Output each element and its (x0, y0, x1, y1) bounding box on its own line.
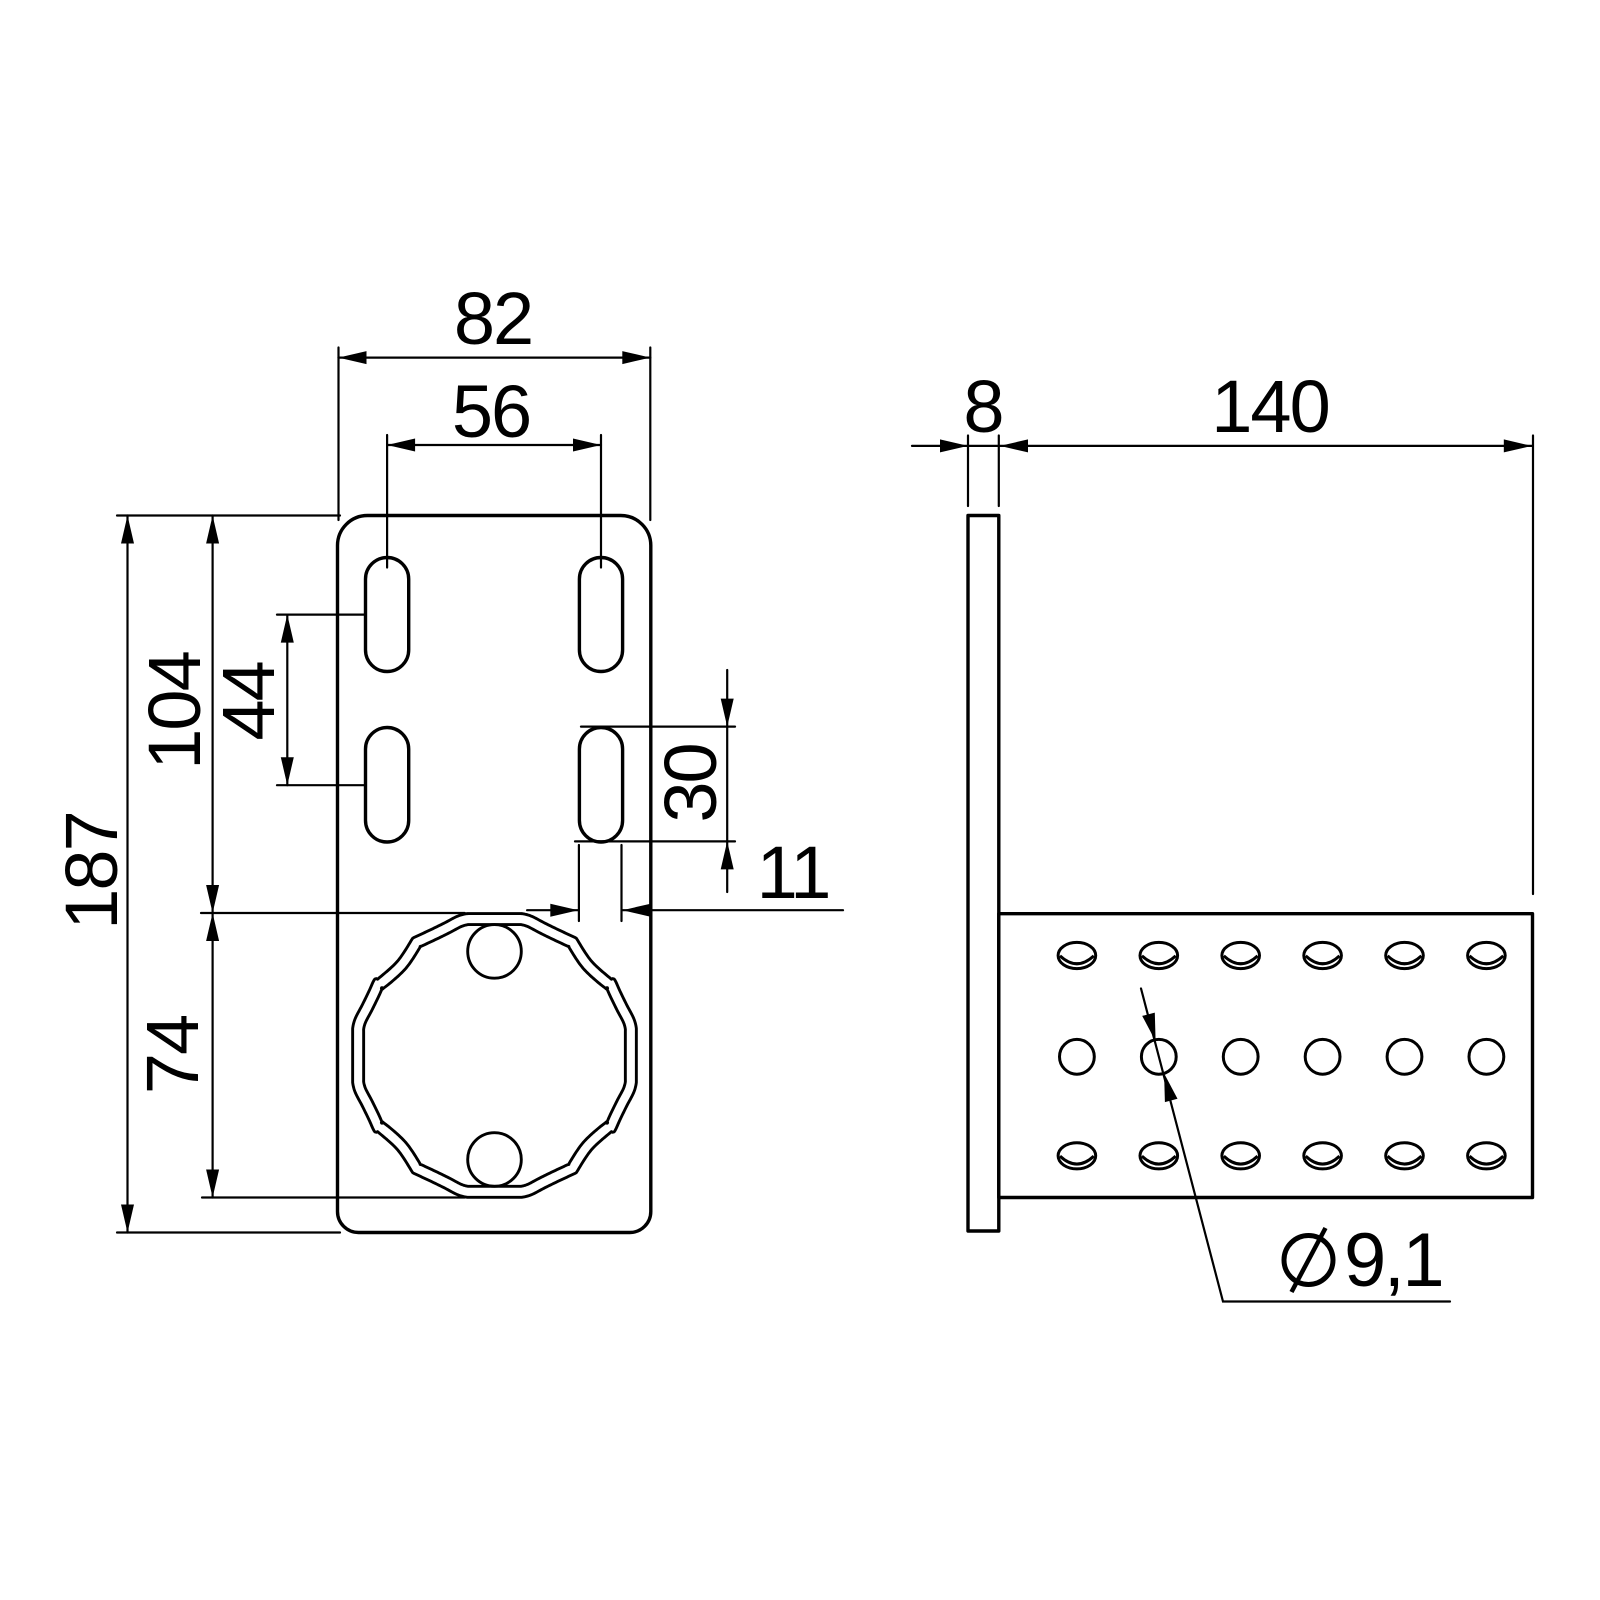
dim 140: text (1211, 365, 1328, 448)
dim 104/74 shared extension line at y=913 (201, 912, 465, 914)
slot top-left (366, 558, 409, 672)
slot top-right (579, 558, 622, 672)
dim 30: extension lines (575, 727, 735, 842)
svg-text:74: 74 (131, 1016, 214, 1094)
wavy adapter ring outer profile (353, 914, 637, 1198)
dim 74: dimension line with arrows (206, 913, 219, 1198)
dim 104: text (rotated) (133, 652, 216, 769)
dim 30: text (rotated) (649, 744, 732, 822)
dim 44: dimension line with arrows (281, 615, 294, 786)
dim 82: extension lines (339, 348, 651, 521)
dim 140: extension line right (1532, 436, 1534, 895)
dim 11: text (757, 831, 830, 914)
dim 140: dimension line with arrows (1000, 439, 1532, 452)
dim 8: extension lines (968, 436, 999, 507)
dim 187: extension lines (117, 516, 340, 1233)
dim 74: extension line at bottom flat (202, 1196, 465, 1198)
dim 82: dimension line with arrows (339, 351, 651, 364)
svg-text:56: 56 (452, 370, 530, 453)
dim 187: text (rotated) (50, 812, 133, 929)
slot bottom-left (366, 728, 409, 843)
dim 104: dimension line with arrows (206, 516, 219, 914)
side view: hole plate (140 wide) (999, 914, 1533, 1198)
dim 11: dimension line with outside arrows (527, 904, 843, 917)
hole grid row middle (circles) (1060, 1039, 1504, 1074)
hole grid row top (countersunk ellipses) (1058, 942, 1505, 968)
svg-text:44: 44 (207, 662, 290, 740)
side view: vertical plate (8 thick) (968, 516, 999, 1232)
slot bottom-right (579, 728, 622, 843)
dim 187: dimension line with arrows (121, 516, 134, 1233)
dim 11: slot edge extension lines (579, 845, 622, 921)
dim 56: text (452, 370, 530, 453)
svg-text:8: 8 (963, 365, 1002, 448)
adapter top circle hole (468, 925, 522, 979)
svg-text:9,1: 9,1 (1344, 1218, 1442, 1303)
dim 30: dimension line with outside arrows (721, 670, 734, 892)
dim 82: text (454, 277, 532, 360)
front view: bracket plate outline (338, 516, 651, 1233)
dim 44: extension lines (277, 615, 364, 786)
svg-text:104: 104 (133, 652, 216, 769)
diameter symbol (1284, 1228, 1333, 1292)
svg-text:11: 11 (757, 831, 830, 914)
dim 8: dimension line with outside arrows (912, 439, 999, 452)
svg-text:30: 30 (649, 744, 732, 822)
wavy adapter ring inner profile (364, 925, 626, 1187)
dim 56: extension lines (387, 435, 601, 568)
dim 44: text (rotated) (207, 662, 290, 740)
dim 8: text (963, 365, 1002, 448)
svg-text:187: 187 (50, 812, 133, 929)
leader line for hole diameter (1141, 989, 1450, 1302)
hole grid row bottom (countersunk ellipses) (1058, 1143, 1505, 1169)
svg-text:82: 82 (454, 277, 532, 360)
diameter text 9,1 (1344, 1218, 1442, 1303)
dim 74: text (rotated) (131, 1016, 214, 1094)
adapter bottom circle hole (468, 1133, 522, 1187)
svg-text:140: 140 (1211, 365, 1328, 448)
dim 56: dimension line with arrows (387, 439, 601, 452)
